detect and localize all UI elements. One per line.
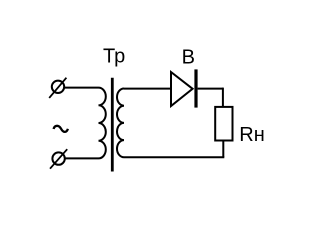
svg-text:В: В	[182, 47, 195, 69]
svg-text:Rн: Rн	[239, 124, 264, 146]
svg-text:Тр: Тр	[103, 45, 125, 67]
